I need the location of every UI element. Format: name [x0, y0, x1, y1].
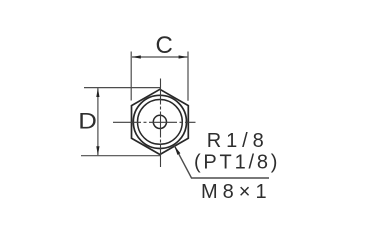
label D: [78, 109, 97, 134]
svg-text:R1/8: R1/8: [207, 130, 269, 152]
dimension C arrow left: [132, 55, 141, 58]
svg-text:C: C: [156, 32, 173, 59]
dimension D arrow bottom: [96, 146, 99, 155]
chamfer circle: [133, 95, 186, 148]
svg-text:D: D: [78, 109, 97, 134]
leader line: [174, 146, 269, 178]
dimension C extension line left: [130, 52, 132, 101]
dimension D arrow top: [96, 88, 99, 97]
hex body (nut outline): [132, 89, 189, 154]
svg-text:M8×1: M8×1: [201, 181, 272, 203]
dimension D extension line top: [84, 87, 161, 89]
dimension C line: [132, 56, 187, 58]
vertical centerline: [160, 79, 162, 168]
dimension C extension line right: [187, 52, 189, 101]
dimension D line: [97, 88, 99, 155]
horizontal centerline: [113, 121, 196, 123]
dimension D extension line bottom: [81, 155, 160, 157]
leader arrowhead: [174, 146, 180, 155]
bore circle: [153, 115, 166, 128]
svg-text:(PT1/8): (PT1/8): [194, 152, 280, 174]
thread circle: [138, 100, 183, 145]
dimension C arrow right: [179, 55, 188, 58]
